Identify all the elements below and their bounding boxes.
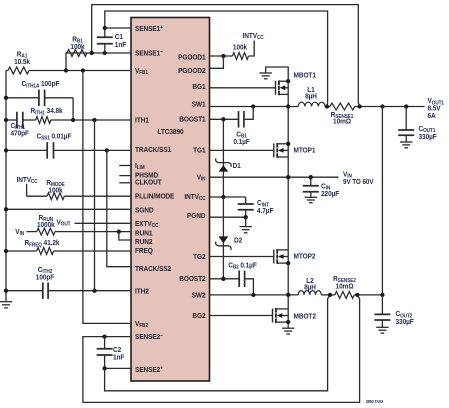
svg-text:FREQ: FREQ [135,246,153,255]
svg-text:BOOST1: BOOST1 [179,115,205,124]
wire RUN1 row [55,231,131,233]
wire pullup to INTVCC [249,41,255,57]
svg-text:MBOT1: MBOT1 [294,71,316,80]
resistor RMODE [47,193,64,200]
node SENSE2+/C2 junction [102,366,106,370]
svg-text:TRACK/SS2: TRACK/SS2 [135,264,171,273]
inductor L2 [298,291,321,295]
node MBOT2 source-body [286,320,290,324]
svg-text:PGOOD1: PGOOD1 [178,53,205,62]
ground PGND [240,226,252,228]
node RITH1/CITH1A junction [71,118,75,122]
diode D2 [219,236,229,243]
wire RA1 left lead [6,70,8,72]
transistor MTOP2 [273,250,275,264]
wire CSS1 row left [6,149,47,151]
resistor RSENSE2 [335,291,354,298]
wire BG1 row [210,87,276,89]
node rail/RFREQ [4,249,8,253]
node SENSE2+ tap [328,293,332,297]
wire CLKOUT stub [119,182,131,184]
node ch2 output junction [380,293,384,297]
svg-text:SGND: SGND [135,206,153,215]
capacitor CIN [310,177,312,186]
node SENSE1- / C1 bottom junction [103,51,107,55]
wire INTVCC stub to RMODE [26,184,28,196]
wire SENSE1- row [66,52,131,54]
wire MBOT1 source to ground loop [266,67,289,81]
node PGND/CINT junction [244,215,248,219]
wire ITH1-ITH2 vertical [94,120,96,291]
capacitor C1 [104,28,106,37]
wire ITH1 row mid [23,119,36,121]
wire L1 to RSENSE1 [325,106,330,108]
node rail/CITH1 [4,118,8,122]
diode D1 [219,165,229,171]
wire CITH1A row [6,97,39,99]
wire VOUT1 to SW2 output vertical [381,107,383,295]
wire BOOST1 row [210,118,239,120]
node SENSE2-/C2 junction [102,334,106,338]
inductor L1 [298,102,325,106]
resistor R PGOOD 100k [233,53,249,60]
capacitor CB1 [238,111,240,128]
node VFB1/VFB2 junction [81,68,85,72]
node ITH2 junction [92,289,96,293]
wire SENSE1+ pin stub [105,27,131,29]
svg-text:100k: 100k [233,43,247,52]
wire SENSE2- loop [83,295,360,403]
wire VIN row [210,176,339,178]
svg-text:10mΩ: 10mΩ [336,282,354,291]
svg-text:TG2: TG2 [193,252,206,261]
wire D1 vertical [222,119,224,197]
wire PGND ground stub [245,217,247,226]
wire VFB1-VFB2 vertical [83,71,131,324]
wire CB1 to SW1 [244,107,253,120]
ground MBOT1 [260,72,272,74]
node RUN1/RUN2 junction [117,229,121,233]
resistor RB1 [67,50,87,57]
node SS1/SS2 junction [105,148,109,152]
svg-text:MTOP2: MTOP2 [294,252,316,261]
svg-text:SW1: SW1 [192,100,206,109]
node VIN/CIN junction [309,175,313,179]
node BOOST2/D2 junction [221,277,225,281]
wire RB1 left to VFB1 row [66,53,67,71]
svg-text:10.5k: 10.5k [14,57,30,66]
node VOUT1/COUT1 junction [404,104,408,108]
node SW1/FET junction [286,104,290,108]
resistor RFREQ [37,248,54,255]
wire INTVCC row [210,196,246,198]
wire VFB1 row [29,70,131,72]
svg-text:9V TO 60V: 9V TO 60V [343,179,374,187]
wire VOUT1 row [355,106,425,108]
svg-text:1nF: 1nF [115,40,127,49]
node rail/SGND [4,207,8,211]
wire ITH1 row right [51,119,131,121]
resistor RA1 [8,67,29,74]
svg-text:100k: 100k [70,42,84,51]
node VOUT1/phase2 junction [380,104,384,108]
svg-text:PGND: PGND [187,211,205,220]
wire TG2 row [210,256,274,258]
svg-text:D1: D1 [233,161,241,170]
node SENSE2- tap [355,293,359,297]
svg-text:RUN1: RUN1 [135,229,152,238]
wire RRUN left lead [27,231,37,233]
wire SENSE1+ top loop [105,11,328,107]
node MBOT1 source-body [286,79,290,83]
capacitor CINT [245,197,247,204]
wire EXTVCC row [75,222,132,224]
capacitor CB2 [238,271,240,288]
svg-text:PGOOD2: PGOOD2 [178,67,205,76]
ground COUT2 [376,326,388,328]
svg-text:MTOP1: MTOP1 [294,146,316,155]
svg-text:0.1µF: 0.1µF [233,138,250,147]
wire CITH2 row left [6,290,43,292]
wire ITH2 row right [48,290,131,292]
wire PLLIN/MODE row [64,195,131,197]
wire CSS1 row right [54,149,132,151]
transistor MBOT2 [272,309,274,323]
node MTOP2 source-body [286,261,290,265]
ground MBOT2 [282,327,294,329]
svg-text:470pF: 470pF [11,129,30,138]
svg-text:100pF: 100pF [36,273,55,282]
node ITH1/ITH2 junction [92,118,96,122]
svg-text:BOOST2: BOOST2 [179,275,205,284]
svg-text:220µF: 220µF [321,189,340,198]
svg-text:SENSE1–: SENSE1– [135,49,163,58]
wire BOOST2 row [210,278,240,280]
svg-text:1nF: 1nF [113,353,125,362]
svg-text:LTC3890: LTC3890 [157,128,183,137]
node SW2/CB2 junction [251,293,255,297]
wire MBOT2 ground stub [287,322,289,328]
node rail/CSS1 [4,148,8,152]
wire SENSE1- top loop [92,5,360,107]
svg-text:100k: 100k [48,186,62,195]
wire SW1 row [210,106,299,108]
node VFB1/RB1 junction [64,68,68,72]
resistor RSENSE1 [330,103,355,110]
wire TG1 row [210,149,274,151]
wire FET vertical chain [287,81,289,322]
node VIN/FET junction [286,175,290,179]
svg-text:D2: D2 [234,236,242,245]
wire left ground rail [5,71,7,302]
transistor MBOT1 [275,81,277,95]
svg-text:TG1: TG1 [193,146,206,155]
svg-text:8µH: 8µH [305,92,317,101]
transistor MTOP1 [273,143,275,157]
svg-text:CLKOUT: CLKOUT [135,178,162,187]
wire RFREQ left lead [6,250,37,252]
wire D2 vertical [222,197,224,279]
svg-text:10mΩ: 10mΩ [333,117,351,126]
resistor RITH1 [36,117,51,124]
wire PGOOD2 link [210,56,224,68]
wire CITH1A right corner [72,98,74,120]
svg-text:SW2: SW2 [192,291,206,300]
wire BG2 row [210,315,273,317]
svg-text:TRACK/SS1: TRACK/SS1 [135,146,171,155]
wire SENSE2+ pin stub [105,367,131,369]
wire ITH1 row left [6,119,17,121]
wire ILIM stub [119,165,131,167]
wire PGOOD1 row [210,55,233,57]
node rail/CITH1A [4,96,8,100]
resistor RRUN [37,228,55,235]
svg-text:RUN2: RUN2 [135,237,152,246]
node SENSE1- / RB1 junction [90,51,94,55]
capacitor COUT2 [381,295,383,315]
svg-text:4.7µF: 4.7µF [257,206,274,215]
wire TRACK/SS2 link [107,150,131,266]
svg-text:330µF: 330µF [419,132,438,141]
node MTOP1 source-body [286,142,290,146]
wire SENSE2+ loop [105,295,330,391]
capacitor CITH1A [38,90,40,107]
wire RUN2 link [119,232,131,240]
ground CIN [305,196,317,198]
wire L2 to RSENSE2 [321,294,335,296]
node SW1/CB1 junction [251,104,255,108]
wire ch2 output row [354,294,382,296]
svg-text:3890 TA03: 3890 TA03 [366,399,384,404]
wire FREQ row [54,250,131,252]
node INTVCC/D junction [221,195,225,199]
ground COUT1 [400,141,412,143]
wire SW2 row [210,294,299,296]
svg-text:SENSE2+: SENSE2+ [135,365,163,374]
svg-text:330µF: 330µF [396,317,415,326]
svg-text:ITH1: ITH1 [135,116,149,125]
svg-text:SENSE1+: SENSE1+ [135,25,163,34]
capacitor CITH1 [16,112,18,129]
node BOOST1/D1 junction [221,117,225,121]
svg-text:6A: 6A [428,111,436,120]
svg-text:ITH2: ITH2 [135,287,149,296]
wire PGND row [210,216,247,218]
ground left rail [0,301,12,303]
svg-text:BG1: BG1 [192,83,205,92]
node SW2/FET junction [286,293,290,297]
capacitor CSS1 [46,142,48,159]
node SENSE1+ / C1 top junction [103,26,107,30]
node SENSE1- tap [357,104,361,108]
capacitor CITH2 [42,282,44,299]
svg-text:CB2 0.1µF: CB2 0.1µF [228,261,257,271]
op-amp U1 LTC3890 controller IC body [131,18,210,382]
capacitor COUT1 [405,107,407,131]
svg-text:SENSE2–: SENSE2– [135,333,163,342]
svg-text:BG2: BG2 [192,311,205,320]
svg-text:1000k: 1000k [37,221,55,230]
capacitor C2 [104,337,106,349]
wire CB2 to SW2 [245,279,254,295]
wire PHSMD stub [119,175,131,177]
svg-text:MBOT2: MBOT2 [294,312,316,321]
wire SGND row [6,208,131,210]
svg-text:PLLIN/MODE: PLLIN/MODE [135,192,175,201]
node PGOOD junction [221,54,225,58]
node SENSE1+ tap [325,104,329,108]
svg-text:8µH: 8µH [304,283,316,292]
node rail/CITH2 [4,289,8,293]
